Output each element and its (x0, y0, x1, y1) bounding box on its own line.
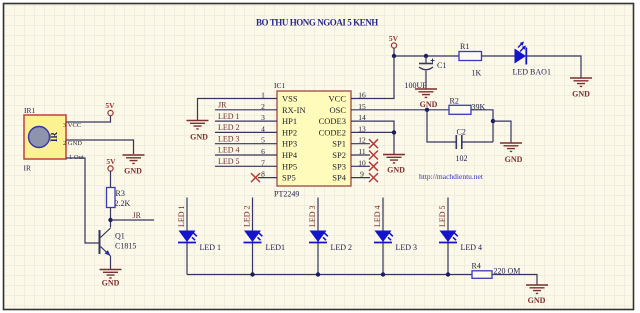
wire pin16 VCC riser (370, 56, 394, 99)
wire R2 right to node (471, 110, 493, 142)
svg-text:LED 3: LED 3 (218, 134, 240, 143)
pin 5 HP3 (258, 136, 297, 149)
pin 9 SP4 (332, 170, 370, 183)
svg-text:15: 15 (358, 102, 366, 111)
LED D5 (439, 231, 461, 243)
svg-text:LED 4: LED 4 (373, 205, 382, 227)
node C1 tap (424, 54, 428, 58)
svg-text:Q1: Q1 (115, 232, 125, 241)
pin 1 VSS (258, 91, 298, 104)
node bus col4 (381, 272, 385, 276)
pin 14 CODE3 (319, 113, 370, 126)
svg-text:11: 11 (358, 147, 365, 156)
wire LED 5 to pin 7 (215, 165, 258, 167)
svg-text:http://machdientu.net: http://machdientu.net (419, 172, 484, 181)
svg-text:5V: 5V (389, 34, 399, 43)
svg-text:C1815: C1815 (115, 242, 136, 251)
svg-text:BO THU HONG NGOAI 5 KENH: BO THU HONG NGOAI 5 KENH (256, 18, 378, 28)
svg-text:RX-IN: RX-IN (282, 105, 306, 115)
pin 13 CODE2 (319, 124, 370, 137)
svg-text:13: 13 (358, 124, 366, 133)
svg-text:JR: JR (218, 101, 227, 110)
svg-text:LED 2: LED 2 (331, 243, 353, 252)
svg-text:SP1: SP1 (332, 139, 346, 149)
wire LED column 5 (447, 198, 449, 275)
ground (R2/C2) (500, 143, 523, 164)
pin 10 SP3 (332, 158, 370, 171)
resistor R1 (459, 52, 482, 61)
node R2/C2 right (491, 119, 495, 123)
svg-text:IR: IR (24, 164, 32, 173)
svg-text:LED 4: LED 4 (461, 243, 483, 252)
no-connect X pin 11 (369, 151, 378, 160)
wire LED 4 to pin 6 (215, 154, 258, 156)
svg-text:2.2K: 2.2K (115, 199, 131, 208)
LED D4 (374, 231, 396, 243)
power 5V (IR vcc) (105, 101, 115, 116)
svg-text:GND: GND (420, 100, 438, 109)
LED BAO1 diode (515, 42, 527, 65)
resistor R2 (449, 105, 471, 114)
svg-text:VCC: VCC (329, 94, 347, 104)
svg-text:14: 14 (358, 113, 366, 122)
wire LED column 2 (252, 198, 254, 275)
wire R1 to LED BAO1 (482, 55, 516, 57)
svg-text:GND: GND (572, 90, 590, 99)
svg-text:SP2: SP2 (332, 150, 346, 160)
svg-text:R1: R1 (460, 42, 469, 51)
resistor R4 (472, 271, 492, 279)
wire R3 to collector (110, 208, 112, 228)
wire LED column 3 (317, 198, 319, 275)
svg-text:C2: C2 (457, 128, 466, 137)
svg-text:HP4: HP4 (282, 150, 298, 160)
LED D3 (309, 231, 331, 243)
svg-text:IC1: IC1 (274, 81, 286, 90)
svg-text:R4: R4 (472, 262, 481, 271)
svg-text:4: 4 (261, 124, 265, 133)
svg-text:JR: JR (133, 211, 142, 220)
svg-text:8: 8 (261, 170, 265, 179)
power 5V (main rail) (389, 34, 399, 48)
node OSC junction (425, 108, 429, 112)
svg-text:LED 2: LED 2 (218, 123, 240, 132)
svg-text:10: 10 (358, 158, 366, 167)
ground (VSS) (187, 121, 209, 142)
svg-text:1K: 1K (472, 69, 482, 78)
svg-text:GND: GND (505, 155, 523, 164)
svg-text:CODE2: CODE2 (319, 127, 346, 137)
wire LED column 4 (382, 198, 384, 275)
power 5V (R3 top) (106, 157, 116, 171)
transistor Q1 (100, 228, 111, 256)
svg-text:LED 1: LED 1 (200, 243, 222, 252)
svg-text:SP3: SP3 (332, 161, 346, 171)
wire LED 3 to pin 5 (215, 143, 258, 145)
wire IR VCC to 5V (66, 116, 111, 122)
ground (bottom) (526, 285, 548, 305)
svg-text:CODE3: CODE3 (319, 116, 346, 126)
wire LED 2 to pin 4 (215, 131, 258, 133)
svg-text:3: 3 (261, 113, 265, 122)
svg-text:R3: R3 (116, 189, 125, 198)
svg-text:7: 7 (261, 158, 265, 167)
wire node to ground branch (493, 121, 511, 142)
no-connect X pin 9 (369, 173, 378, 182)
svg-text:LED 3: LED 3 (308, 205, 317, 227)
pin 15 OSC (329, 102, 370, 115)
svg-text:LED 3: LED 3 (396, 243, 418, 252)
wire IR GND to ground (66, 140, 134, 154)
svg-text:SP4: SP4 (332, 173, 346, 183)
ground (CODE2) (383, 155, 405, 175)
svg-text:LED 4: LED 4 (218, 146, 240, 155)
no-connect X pin 10 (369, 162, 378, 171)
ground (Q1 emitter) (100, 270, 122, 288)
wire LED 1 to pin 3 (215, 120, 258, 122)
svg-text:9: 9 (360, 170, 364, 179)
pin 6 HP4 (258, 147, 298, 160)
pin 12 SP1 (332, 136, 370, 149)
svg-text:6: 6 (261, 147, 265, 156)
wire pin15 OSC to R2 network (370, 109, 449, 111)
svg-text:OSC: OSC (329, 105, 346, 115)
no-connect X pin 12 (369, 139, 378, 148)
wire JR net (111, 219, 155, 221)
svg-text:IR: IR (49, 131, 59, 142)
pin 7 HP5 (258, 158, 297, 171)
node 5V junction (392, 54, 396, 58)
wire pin1 VSS to ground (198, 99, 259, 121)
LED D1 (178, 231, 200, 243)
IC U1 PT2249 (277, 91, 351, 186)
svg-text:1: 1 (261, 91, 265, 100)
no-connect X pin 8 (251, 173, 260, 182)
svg-text:PT2249: PT2249 (274, 190, 299, 199)
wire bottom bus (187, 274, 472, 276)
wire C2 branch (427, 110, 493, 142)
svg-text:VSS: VSS (282, 94, 298, 104)
ground (C1) (415, 89, 438, 109)
capacitor C2 (456, 135, 462, 149)
svg-text:5: 5 (261, 136, 265, 145)
node CODE junction (392, 130, 396, 134)
pin 8 SP5 (258, 170, 296, 183)
wire LED BAO1 to ground (527, 56, 581, 78)
svg-text:12: 12 (358, 136, 366, 145)
node bus col5 (446, 272, 450, 276)
wire emitter to ground (110, 256, 112, 269)
wire IR Out to Q1 base (66, 158, 99, 243)
svg-text:LED1: LED1 (266, 243, 286, 252)
svg-text:GND: GND (124, 167, 142, 176)
svg-text:IR1: IR1 (24, 106, 36, 115)
pin 3 HP1 (258, 113, 297, 126)
svg-text:HP3: HP3 (282, 139, 297, 149)
svg-text:LED 1: LED 1 (177, 205, 186, 227)
svg-text:2: 2 (261, 102, 265, 111)
wire LED column 1 (186, 198, 188, 275)
svg-text:SP5: SP5 (282, 173, 296, 183)
svg-text:GND: GND (190, 133, 208, 142)
svg-text:16: 16 (358, 91, 366, 100)
svg-text:R2: R2 (450, 97, 459, 106)
resistor R3 (107, 188, 116, 208)
wire 5V rail (394, 48, 459, 56)
IR receiver IR1 (24, 115, 66, 159)
svg-text:HP2: HP2 (282, 127, 297, 137)
svg-text:5V: 5V (106, 157, 116, 166)
svg-text:LED 5: LED 5 (438, 205, 447, 227)
svg-text:GND: GND (387, 166, 405, 175)
pin 2 RX-IN (258, 102, 306, 115)
svg-text:LED 5: LED 5 (218, 157, 240, 166)
wire JR to pin 2 (215, 109, 258, 111)
svg-text:2 GND: 2 GND (63, 140, 82, 147)
wire 5V to R3 (110, 171, 112, 188)
ground (IR gnd) (123, 155, 145, 176)
svg-text:C1: C1 (437, 61, 446, 70)
svg-text:HP1: HP1 (282, 116, 297, 126)
svg-text:LED 2: LED 2 (243, 205, 252, 227)
svg-text:GND: GND (528, 296, 546, 305)
svg-text:102: 102 (456, 154, 468, 163)
svg-text:5V: 5V (105, 101, 115, 110)
ground (LED BAO1) (570, 78, 592, 99)
node bus col3 (316, 272, 320, 276)
LED D2 (244, 231, 266, 243)
svg-text:3 VCC: 3 VCC (63, 122, 81, 129)
svg-text:LED 1: LED 1 (218, 112, 240, 121)
svg-text:LED BAO1: LED BAO1 (513, 68, 551, 77)
pin 16 VCC (329, 91, 370, 104)
wire pin14 CODE3 (370, 121, 394, 132)
node bus col2 (250, 272, 254, 276)
svg-text:HP5: HP5 (282, 161, 297, 171)
svg-text:GND: GND (102, 279, 120, 288)
node junction JR (108, 218, 112, 222)
pin 11 SP2 (332, 147, 370, 160)
wire R4 to ground (492, 275, 537, 285)
capacitor C1 (419, 56, 435, 89)
wire pin13 CODE2 to ground (370, 132, 394, 154)
pin 4 HP2 (258, 124, 297, 137)
